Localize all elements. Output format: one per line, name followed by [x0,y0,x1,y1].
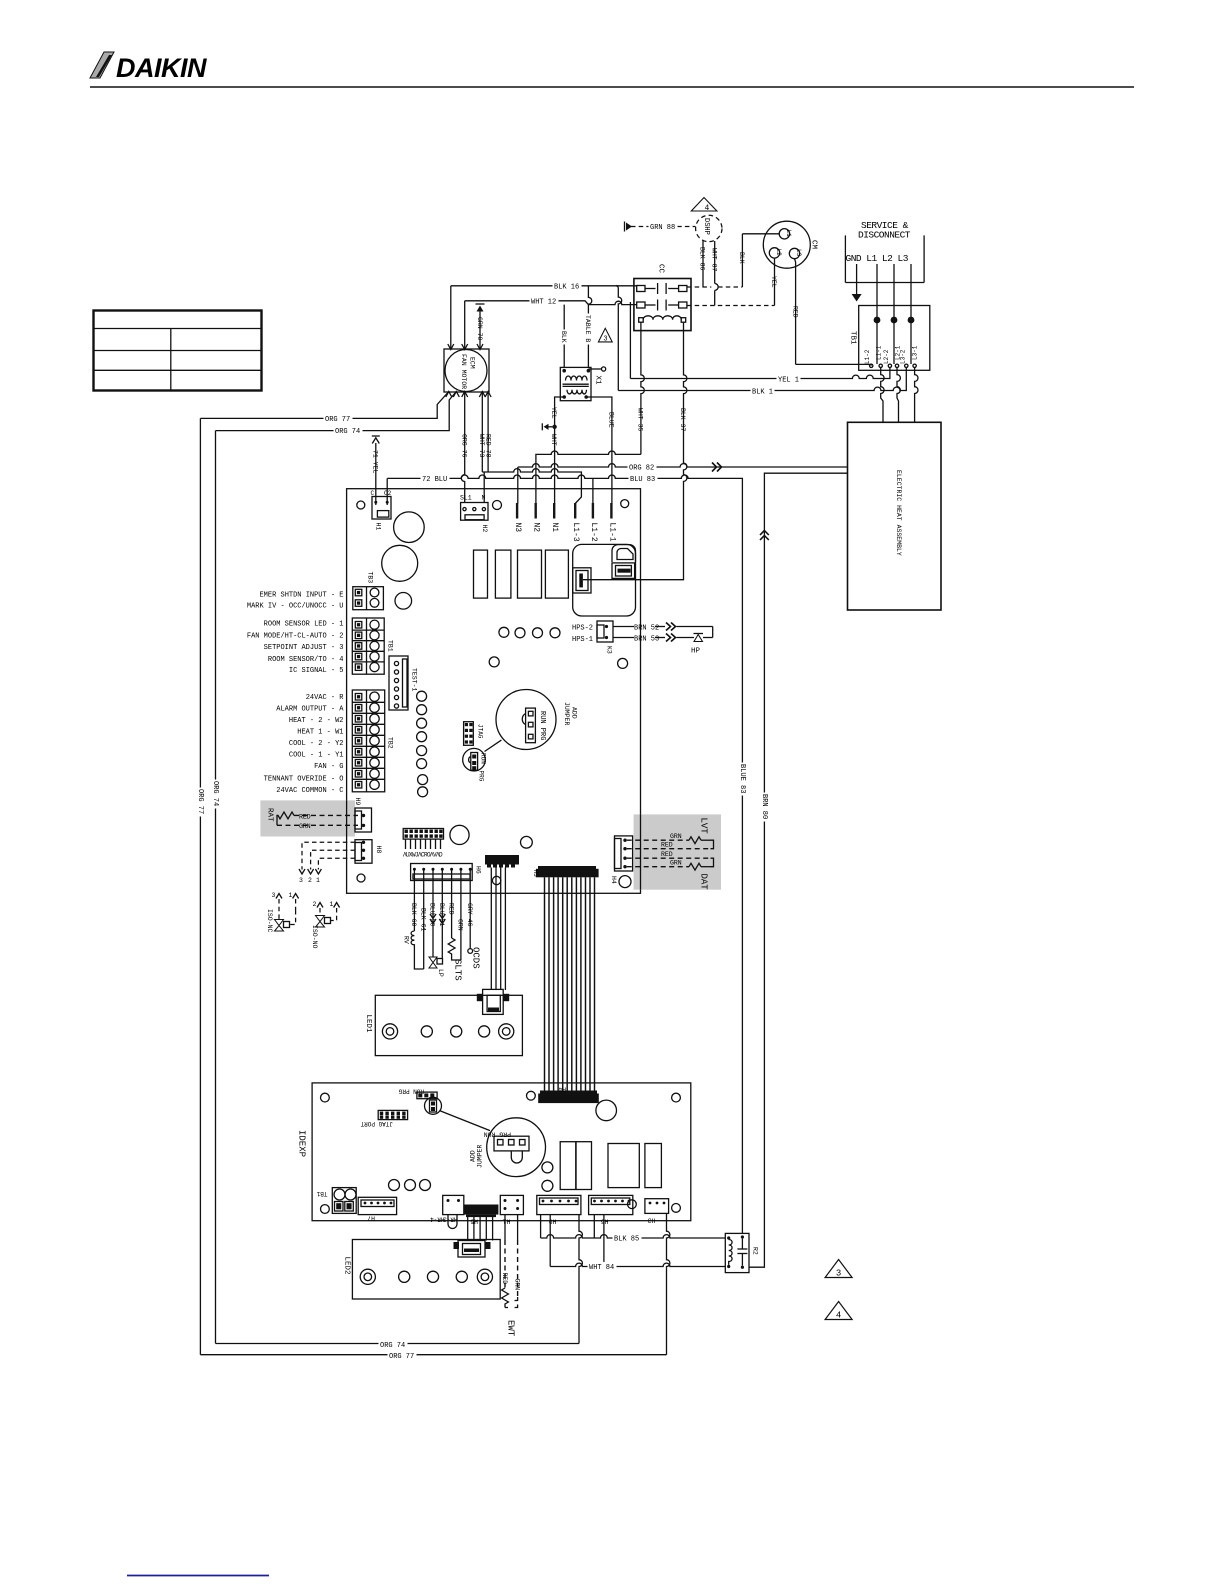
svg-text:71 YEL: 71 YEL [371,450,378,474]
svg-text:BRN 53: BRN 53 [634,636,659,644]
ISO-NC switch [266,892,299,933]
svg-text:TENNANT OVERIDE - O: TENNANT OVERIDE - O [264,776,344,784]
svg-text:ISO-NO: ISO-NO [311,925,318,949]
svg-text:ROOM SENSOR/TO - 4: ROOM SENSOR/TO - 4 [268,656,344,664]
svg-text:GRN: GRN [670,833,682,840]
svg-text:3: 3 [299,877,303,884]
jumper header block [403,829,444,859]
svg-text:HP: HP [691,648,701,656]
svg-text:PRG RUN: PRG RUN [484,1131,511,1138]
svg-text:BLK: BLK [560,331,567,343]
svg-text:JTAG PORT: JTAG PORT [360,1120,393,1127]
dashed links CC to CM wires [687,286,711,288]
wire WHT 35 [637,322,645,454]
mounting hole top-right [621,500,629,508]
relay K1 [474,550,488,598]
svg-text:H2: H2 [481,525,488,533]
triangle 3 note [598,328,612,343]
LED2 top connector [454,1241,491,1258]
svg-text:FAN MOTOR: FAN MOTOR [460,354,467,389]
wire BLK 16 [451,281,637,349]
svg-text:ADD: ADD [470,1150,477,1162]
connector TB3 [353,572,384,610]
svg-text:L1-2: L1-2 [864,349,871,364]
svg-text:L2: L2 [775,249,782,257]
svg-text:MARK IV - OCC/UNOCC - U: MARK IV - OCC/UNOCC - U [247,603,344,611]
TB1 pin drops to heat assembly [881,368,918,423]
svg-text:IC SIGNAL - 5: IC SIGNAL - 5 [289,667,344,675]
wire BLK 1 [618,368,906,397]
wire 71 YEL [371,436,379,505]
svg-text:OCDS: OCDS [471,947,481,969]
svg-text:4: 4 [705,204,710,213]
svg-text:ΛUXWJΛCROΛVΛD: ΛUXWJΛCROΛVΛD [403,852,443,859]
svg-text:N3: N3 [513,523,522,533]
svg-text:WHT 73: WHT 73 [478,434,485,458]
wire GRN 70 + gnd arrow [476,304,485,349]
svg-text:EWT: EWT [506,1320,516,1337]
svg-text:FAN MODE/HT-CL-AUTO - 2: FAN MODE/HT-CL-AUTO - 2 [247,632,344,640]
svg-text:C: C [371,490,375,497]
svg-text:RED: RED [661,842,673,849]
RUN PRG mini [463,740,502,782]
svg-text:BLU 83: BLU 83 [630,476,655,484]
svg-text:JUMPER: JUMPER [563,702,570,726]
footer rule [127,1575,269,1577]
relay K2 IDEXP [608,1144,639,1188]
svg-text:HPS-2: HPS-2 [572,625,593,633]
svg-text:TB1: TB1 [387,640,394,652]
svg-text:HEAT - 2 - W2: HEAT - 2 - W2 [289,717,344,725]
LED1 top connector [477,989,509,1014]
svg-text:CC: CC [657,264,665,274]
L1 L2 L3 drops [876,264,878,320]
wire YEL 1 [630,368,890,385]
svg-text:L3-1: L3-1 [912,345,919,360]
wire BLK 86 [699,241,706,288]
svg-text:SL1: SL1 [460,495,472,502]
wire WHT 84 [550,1215,725,1272]
wire 72 BLU / BLU 83 bus [387,474,748,1234]
svg-text:BLK 61: BLK 61 [419,908,426,932]
triangle 4 note [691,198,717,214]
svg-text:TB1: TB1 [316,1190,327,1197]
svg-text:RUN PRG: RUN PRG [538,711,546,740]
svg-text:H5: H5 [532,870,539,878]
svg-text:3: 3 [836,1269,841,1279]
relay R2 [725,1233,758,1272]
H6 wires down [403,869,481,980]
riser ORG77 from H3 [667,1213,670,1354]
svg-text:WHT 84: WHT 84 [589,1264,614,1272]
LED2 board [343,1240,501,1300]
svg-text:H8: H8 [375,846,382,854]
ADD JUMPER circle bottom [470,1118,546,1177]
svg-text:BLK 86: BLK 86 [699,247,706,271]
svg-text:L1-1: L1-1 [876,345,883,360]
svg-text:N: N [482,495,486,502]
svg-text:RUN: RUN [480,753,487,764]
outer loop ORG 77 [196,418,667,1361]
svg-text:COOL - 2 - Y2: COOL - 2 - Y2 [289,740,344,748]
svg-text:HPS-1: HPS-1 [572,636,593,644]
svg-text:ROOM SENSOR LED - 1: ROOM SENSOR LED - 1 [264,620,344,628]
svg-text:FAN - G: FAN - G [314,763,343,771]
H1 bottom board [500,1195,523,1224]
svg-text:TB3: TB3 [367,572,374,584]
svg-text:24VAC COMMON - C: 24VAC COMMON - C [276,787,343,795]
ISO-NO switch [311,901,340,949]
svg-text:RED 78: RED 78 [485,434,492,458]
svg-text:BLUE 83: BLUE 83 [738,764,746,793]
svg-text:DISCONNECT: DISCONNECT [858,230,911,241]
H8 dashed wires [299,842,355,884]
SERVICE & DISCONNECT [845,220,924,283]
svg-text:L1: L1 [785,230,792,238]
left pin labels [247,591,344,795]
connector H9 [354,798,372,833]
svg-text:YEL 1: YEL 1 [778,377,799,385]
svg-text:24VAC - R: 24VAC - R [306,694,345,702]
svg-text:H1: H1 [375,523,382,531]
LVT DAT highlight [627,814,721,890]
mini RUN PRG bottom board [398,1088,490,1131]
svg-text:H1: H1 [503,1218,511,1225]
H3 bottom board [645,1199,669,1224]
connector TEST-1 [389,656,418,710]
JTAG PORT bottom [360,1110,407,1127]
DSHP defrost switch [696,215,722,241]
svg-text:TEST-1: TEST-1 [411,668,418,692]
board outline [347,489,641,894]
relay K2 [495,550,511,598]
svg-text:ORG 74: ORG 74 [335,428,360,436]
svg-text:RED: RED [501,1273,508,1285]
LED1 display board [364,995,522,1055]
svg-text:ELECTRIC HEAT ASSEMBLY: ELECTRIC HEAT ASSEMBLY [895,470,902,556]
svg-text:ORG 77: ORG 77 [196,789,204,814]
svg-text:RED: RED [299,813,311,820]
svg-text:ORG 76: ORG 76 [460,434,467,458]
svg-text:RED: RED [661,851,673,858]
svg-text:H7: H7 [367,1215,375,1222]
svg-text:BLU 51: BLU 51 [438,903,445,927]
transformer X1 [560,367,605,401]
svg-text:IDEXP: IDEXP [297,1130,307,1157]
svg-text:TB2: TB2 [387,737,394,749]
wire WHT 12 [465,296,637,349]
svg-text:BLUE: BLUE [608,412,615,428]
EWT sensor [501,1215,521,1337]
wire BLK 37 [583,322,687,580]
svg-text:72 BLU: 72 BLU [422,476,447,484]
svg-text:GRN: GRN [299,823,311,830]
svg-text:1: 1 [316,877,320,884]
compressor plug [573,544,636,616]
wire BLK from CM L1 [738,234,779,287]
svg-text:H6: H6 [475,866,482,874]
svg-text:LED2: LED2 [343,1257,351,1275]
wire BLK to X1 [560,305,569,368]
svg-text:BLK 1: BLK 1 [752,389,773,397]
svg-text:EMER SHTDN INPUT - E: EMER SHTDN INPUT - E [259,591,343,599]
svg-text:GRN: GRN [514,1279,521,1291]
mounting hole top-mid [493,501,502,510]
wire BRN 80 [749,473,848,1267]
svg-text:4: 4 [836,1311,841,1321]
wire YEL/WHT from X1 to N1 [542,397,564,504]
branch verticals to YEL1/BLK1 [629,302,631,379]
svg-text:GRN: GRN [457,919,464,931]
svg-text:3: 3 [272,892,276,899]
svg-text:HR-3: HR-3 [443,1216,458,1223]
svg-text:GRN 88: GRN 88 [650,224,675,232]
svg-text:ALARM OUTPUT - A: ALARM OUTPUT - A [276,706,344,714]
svg-text:HR-4: HR-4 [430,1216,445,1223]
svg-text:RED: RED [792,306,799,318]
connector TB2 [352,690,393,792]
TB2 rows [352,692,384,789]
svg-text:WHT 12: WHT 12 [531,298,556,306]
HR connector [430,1195,464,1228]
svg-text:TABLE B: TABLE B [584,315,591,342]
svg-text:H4: H4 [610,876,617,884]
svg-text:ORG 82: ORG 82 [629,464,654,472]
H4 bottom board black connector [538,1086,599,1104]
svg-text:K3: K3 [606,646,613,654]
triangle 4 bottom [825,1302,852,1321]
riser ORG74 from H9 [579,1215,582,1344]
svg-text:ORG 77: ORG 77 [325,416,350,424]
mounting hole top-left [357,501,365,509]
svg-text:JTAG: JTAG [477,724,484,739]
svg-text:DAT: DAT [699,874,709,891]
triangle 3 bottom [825,1260,852,1279]
ribbon cable H5 to H4 [545,877,595,1092]
header rule [90,86,1134,88]
svg-text:ORG 74: ORG 74 [211,781,219,806]
svg-text:LP: LP [437,969,444,977]
connector H2 SL1 [460,495,488,533]
svg-text:BLK 37: BLK 37 [679,408,686,432]
svg-text:ADD: ADD [571,707,578,719]
connector H6 [411,864,482,881]
wire L1-2 drop [592,478,594,503]
svg-text:L1-1: L1-1 [607,523,616,542]
svg-text:GRN 70: GRN 70 [476,317,483,341]
svg-text:ISO-NC: ISO-NC [266,909,273,933]
svg-text:L3-2: L3-2 [899,349,906,364]
spade terminals N3 N2 N1 L1-3 L1-2 L1-1 [513,503,616,542]
svg-text:BLU 50: BLU 50 [429,903,436,927]
svg-text:HEAT 1 - W1: HEAT 1 - W1 [297,729,343,737]
svg-text:SLTS: SLTS [453,959,463,981]
outer loop ORG 74 [211,431,579,1350]
wire WHT 87 [711,241,719,306]
svg-text:L1-3: L1-3 [571,523,580,542]
svg-text:C2: C2 [384,490,392,497]
relay K1 IDEXP [560,1142,591,1190]
bus line N2/WHT35 [536,451,641,504]
svg-text:RAT: RAT [266,808,274,822]
svg-text:BRN 52: BRN 52 [634,625,659,633]
connector H4 board [610,836,633,888]
svg-text:TB1: TB1 [849,331,857,345]
TB1 board rows [352,620,384,672]
small circles row [499,627,509,637]
svg-text:2: 2 [308,877,312,884]
wire run to L1-3 [482,469,581,504]
bus ORG 82 [518,462,848,503]
svg-text:1: 1 [289,892,293,899]
svg-text:ORG 74: ORG 74 [380,1342,405,1350]
terminal block TB1 [849,306,930,371]
svg-text:RV: RV [403,936,410,944]
svg-text:N1: N1 [550,523,559,533]
connector TB1 board [352,618,393,674]
wire BLUE from X1 to L1-1 [586,397,614,504]
svg-text:JUMPER: JUMPER [477,1144,484,1168]
compressor motor CM [763,221,817,268]
board edge over RAT box [346,800,348,836]
svg-text:BLK 16: BLK 16 [554,283,579,291]
relay K3 IDEXP [645,1144,662,1188]
connector H8 [355,840,382,864]
svg-text:WHT: WHT [550,434,557,446]
connector H7 black [485,855,519,990]
Daikin logo mark [90,52,207,83]
svg-text:1: 1 [330,901,334,908]
circles column right of TB2 [417,691,427,701]
svg-text:SETPOINT ADJUST - 3: SETPOINT ADJUST - 3 [264,644,344,652]
JTAG header [464,722,484,746]
svg-text:3: 3 [603,336,607,344]
svg-text:BLK 60: BLK 60 [410,903,417,927]
wire GRN 88 dashed [625,222,696,233]
svg-text:YEL: YEL [550,407,557,419]
svg-text:CM: CM [810,240,818,250]
svg-text:R2: R2 [752,1247,759,1255]
svg-text:RED: RED [447,903,454,915]
svg-text:BLK: BLK [738,252,745,264]
svg-text:COOL - 1 - Y1: COOL - 1 - Y1 [289,751,344,759]
wires WHT 73 / RED 78 [478,392,492,473]
connector H1 [371,490,392,530]
big holes left [394,512,425,543]
wire ORG 74 left [216,392,457,437]
svg-text:L3: L3 [795,249,802,257]
svg-text:GRN: GRN [670,860,682,867]
board edge over LVT box [640,814,642,889]
svg-text:N2: N2 [532,523,541,533]
svg-text:LVT: LVT [699,818,709,835]
svg-text:X1: X1 [594,376,602,386]
svg-text:YEL: YEL [770,276,777,288]
wire ORG 76 [460,392,467,504]
H9 bottom board [537,1195,581,1224]
svg-text:L2-2: L2-2 [883,349,890,364]
svg-text:WHT 87: WHT 87 [711,248,718,272]
TB1 bottom board [316,1188,356,1214]
H5 bottom board [464,1205,499,1241]
svg-text:H9: H9 [354,798,361,806]
svg-text:GRY 46: GRY 46 [466,903,473,927]
wire TABLE B [584,286,593,368]
svg-text:RUN PRG: RUN PRG [398,1088,424,1095]
GND arrow [852,264,862,302]
svg-text:L1-2: L1-2 [589,523,598,542]
H7 bottom board [358,1197,396,1221]
HPS K3 [572,621,713,656]
svg-text:DSHP: DSHP [702,218,710,235]
relay K4 [518,550,542,598]
wire YEL from CM L2 [770,258,777,305]
RAT sensor highlight [260,800,358,836]
svg-text:DAIKIN: DAIKIN [116,53,207,83]
svg-text:ORG 77: ORG 77 [389,1353,414,1361]
svg-text:WHT 35: WHT 35 [637,408,644,432]
svg-text:H4: H4 [558,1086,566,1093]
ADD JUMPER circle [496,690,578,750]
svg-text:PRG: PRG [478,771,485,782]
ECM fan motor [444,344,491,397]
wire BLK 85 [541,1215,726,1244]
svg-text:BLK 85: BLK 85 [614,1235,639,1243]
svg-text:GND L1 L2 L3: GND L1 L2 L3 [846,253,909,264]
connector H5 black + ribbon [532,866,599,877]
svg-text:BRN 80: BRN 80 [760,794,768,819]
wire RED from CM L3 [792,259,872,366]
svg-text:ECM: ECM [469,357,476,369]
relay K5 [545,550,568,598]
svg-text:H3: H3 [648,1217,656,1224]
wire ORG 77 left [200,392,448,424]
svg-text:LED1: LED1 [364,1015,372,1034]
H6 bottom board [589,1195,633,1224]
svg-text:2: 2 [313,901,317,908]
electric heat assembly [848,422,942,610]
contactor CC [634,264,691,331]
